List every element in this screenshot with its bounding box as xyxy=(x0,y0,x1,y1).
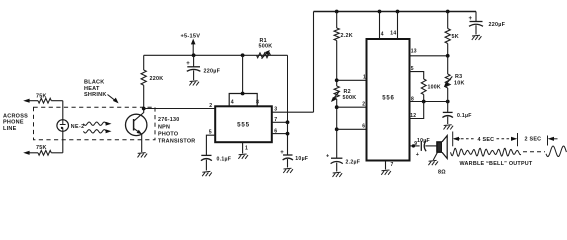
ground 556 pin 7 xyxy=(381,170,391,175)
resistor 75K top (zigzag) xyxy=(38,98,51,103)
wire 555 pins 4-8 bracket xyxy=(229,94,257,107)
ground under 220uF output xyxy=(472,35,482,40)
capacitor 10uF (output coupling) xyxy=(420,141,422,151)
node dot collector/220K/pin2 xyxy=(142,107,146,111)
svg-text:+: + xyxy=(326,153,329,159)
node dot 100K/pin8 xyxy=(422,100,426,104)
wire 556 pin 14 stub xyxy=(397,12,399,40)
wire rail down to 555 pins 4-8 bracket xyxy=(242,55,244,93)
light wavy arrow upper xyxy=(83,122,105,125)
phototransistor collector lead xyxy=(134,109,144,122)
svg-text:4: 4 xyxy=(231,100,234,106)
ground under 10uF xyxy=(283,168,293,173)
wire 556 pin 4 stub xyxy=(379,12,381,40)
wire 556 pin 7 to ground xyxy=(385,161,387,170)
svg-text:10K: 10K xyxy=(454,80,465,86)
svg-text:0.1µF: 0.1µF xyxy=(457,113,472,119)
svg-text:6: 6 xyxy=(362,124,365,130)
dimension tick (2 SEC end) xyxy=(547,136,549,146)
capacitor 0.1uF (pin 5) xyxy=(201,154,211,156)
wire R2 to 2.2uF xyxy=(336,99,338,158)
wire 220K vertical xyxy=(143,55,145,70)
svg-text:+5-15V: +5-15V xyxy=(181,34,201,40)
ground 555 pin 1 xyxy=(238,154,248,159)
wire 555 pin 1 to ground xyxy=(242,142,244,153)
wire 555 output pin 3 xyxy=(272,111,314,113)
svg-text:ACROSS: ACROSS xyxy=(3,113,28,119)
capacitor 0.1uF (warble) xyxy=(447,102,449,113)
svg-text:SHRINK: SHRINK xyxy=(84,92,107,98)
wire top distribution rail xyxy=(314,11,477,13)
node dot bracket xyxy=(241,92,245,96)
svg-text:2.2µF: 2.2µF xyxy=(346,160,361,166)
node dot 556 pin 2 branch xyxy=(335,105,339,109)
resistor 2.2K xyxy=(334,28,339,41)
node dot rail/pin14 xyxy=(396,10,400,14)
ground under speaker xyxy=(428,160,438,165)
capacitor 10uF (timing) xyxy=(283,154,293,156)
node dot pin 6 xyxy=(286,132,290,136)
wire 555 pin 6 xyxy=(272,133,288,135)
svg-text:220µF: 220µF xyxy=(489,22,506,28)
neon lamp NE-2 xyxy=(57,120,69,132)
leader arrow to heat shrink xyxy=(108,95,117,102)
svg-text:1: 1 xyxy=(245,146,248,152)
svg-text:4 SEC: 4 SEC xyxy=(478,137,495,143)
svg-text:8Ω: 8Ω xyxy=(438,169,446,175)
svg-text:7: 7 xyxy=(391,162,394,168)
wire 556 pin 13 xyxy=(410,55,448,57)
wire pins 7-6 junction vertical xyxy=(287,122,289,155)
node dot rail/pin4 xyxy=(378,10,382,14)
wire NE-2 vertical leads xyxy=(62,101,64,120)
resistor R3 10K (variable) xyxy=(447,56,449,74)
svg-text:500K: 500K xyxy=(259,44,273,50)
node dot rail/5K xyxy=(446,10,450,14)
op-amp/timer IC U1 555 body xyxy=(215,106,272,142)
svg-text:555: 555 xyxy=(237,121,250,128)
wire cap to speaker xyxy=(425,145,437,147)
capacitor 220uF (output supply) xyxy=(470,21,483,23)
wire phone-line bottom lead with left arrow xyxy=(28,152,39,154)
svg-text:+: + xyxy=(280,150,284,156)
svg-text:2: 2 xyxy=(209,103,212,109)
node dot 556 pin 6 branch xyxy=(335,127,339,131)
wire 556 pin 8 xyxy=(410,101,448,103)
svg-text:8: 8 xyxy=(256,100,259,106)
svg-text:2.2K: 2.2K xyxy=(341,33,353,39)
svg-text:0.1µF: 0.1µF xyxy=(217,156,232,162)
svg-text:BLACK: BLACK xyxy=(84,80,105,86)
node dot supply/rail xyxy=(192,53,196,57)
svg-text:10µF: 10µF xyxy=(295,156,308,162)
wire to 556 pin 1 xyxy=(337,79,367,81)
resistor 220K xyxy=(141,70,146,85)
node dot 556 pin 1 branch xyxy=(335,78,339,82)
svg-text:2 SEC: 2 SEC xyxy=(525,137,542,143)
wire R1 to pins 7-6 vertical xyxy=(287,55,289,122)
svg-text:276-130: 276-130 xyxy=(158,117,180,123)
svg-text:5: 5 xyxy=(209,129,212,135)
svg-text:75K: 75K xyxy=(36,93,47,99)
svg-text:WARBLE “BELL” OUTPUT: WARBLE “BELL” OUTPUT xyxy=(460,161,533,167)
capacitor 2.2uF xyxy=(331,157,342,159)
node dot pin13/5K/R3 xyxy=(446,54,450,58)
wire 555 pin 7 xyxy=(272,121,288,123)
svg-text:14: 14 xyxy=(390,30,396,36)
svg-text:TRANSISTOR: TRANSISTOR xyxy=(158,139,195,145)
wire speaker to ground xyxy=(433,152,437,160)
wire 2.2K branch upper xyxy=(336,12,338,29)
wire 555 output riser xyxy=(313,12,315,113)
ground under 0.1uF warble xyxy=(444,125,454,130)
node dot pin 9 xyxy=(412,144,415,147)
dimension arrow 2 SEC right xyxy=(548,137,554,141)
phototransistor emitter lead with arrow xyxy=(134,128,142,134)
resistor R2 500K (variable) xyxy=(334,86,339,99)
light wavy arrow lower xyxy=(83,130,105,133)
wire to 556 pin 6 xyxy=(337,128,367,130)
wire 100K lower xyxy=(423,95,425,102)
svg-text:LINE: LINE xyxy=(3,126,17,132)
svg-text:+: + xyxy=(186,61,190,67)
svg-text:10µF: 10µF xyxy=(417,138,430,144)
dimension tick left (4 SEC) xyxy=(452,132,454,147)
speaker SPK 8-ohm xyxy=(437,142,442,152)
svg-text:100K: 100K xyxy=(428,85,441,91)
ground under 2.2uF xyxy=(333,172,343,177)
resistor R1 500K (variable) xyxy=(257,53,271,58)
svg-text:4: 4 xyxy=(381,31,384,37)
wire to 555 pin 2 xyxy=(144,108,216,110)
wire to 556 pin 2 xyxy=(337,106,367,108)
svg-text:556: 556 xyxy=(382,95,394,101)
dimension arrows and line 4 SEC xyxy=(454,138,460,140)
svg-text:13: 13 xyxy=(411,48,417,54)
svg-text:R3: R3 xyxy=(455,74,462,80)
capacitor 220uF (supply bypass) xyxy=(193,55,195,67)
wire 556 pin 9 xyxy=(410,145,420,147)
resistor 75K bottom (zigzag) xyxy=(38,150,51,155)
svg-text:+: + xyxy=(416,152,419,158)
svg-text:PHOTO: PHOTO xyxy=(158,132,178,138)
svg-text:NE-2: NE-2 xyxy=(71,124,85,130)
svg-text:220K: 220K xyxy=(150,76,164,82)
wire phone-line top lead with left arrow xyxy=(28,100,39,102)
wire 2.2K to R2 xyxy=(336,41,338,87)
svg-text:NPN: NPN xyxy=(158,125,170,131)
waveform silent gap xyxy=(523,151,545,153)
node dot pin8/R3 xyxy=(446,100,450,104)
svg-text:220µF: 220µF xyxy=(204,69,221,75)
wire +V supply rail xyxy=(144,54,288,56)
timer IC U2 556 body xyxy=(367,39,410,161)
svg-text:2: 2 xyxy=(362,102,365,108)
resistor 5K xyxy=(447,12,449,29)
ground under 220uF xyxy=(189,81,199,86)
black heat shrink dashed enclosure xyxy=(34,107,156,140)
ground under phototransistor emitter xyxy=(138,153,148,158)
svg-text:75K: 75K xyxy=(36,145,47,151)
waveform burst 2 xyxy=(546,146,566,157)
node dot rail/555 Vcc xyxy=(241,53,245,57)
waveform warble burst 1 xyxy=(451,148,521,156)
svg-text:5K: 5K xyxy=(452,34,459,40)
node dot rail/2.2K xyxy=(335,10,339,14)
node dot pin 7 xyxy=(286,120,290,124)
wire 555 pin 5 stub xyxy=(206,135,215,155)
svg-text:HEAT: HEAT xyxy=(84,86,100,92)
svg-text:+: + xyxy=(469,16,473,22)
wire rail to 220uF output cap xyxy=(475,12,477,22)
resistor 100K xyxy=(421,79,426,95)
ground under 0.1uF xyxy=(202,171,212,176)
wire 556 pin 5 to 100K xyxy=(410,72,424,79)
dimension tick right (4 SEC) xyxy=(517,133,519,146)
svg-text:500K: 500K xyxy=(343,95,357,101)
svg-text:R2: R2 xyxy=(344,89,351,95)
phototransistor Q1 body xyxy=(126,114,147,135)
wire 556 pin 12 loop xyxy=(410,102,424,119)
svg-text:PHONE: PHONE xyxy=(3,120,24,126)
